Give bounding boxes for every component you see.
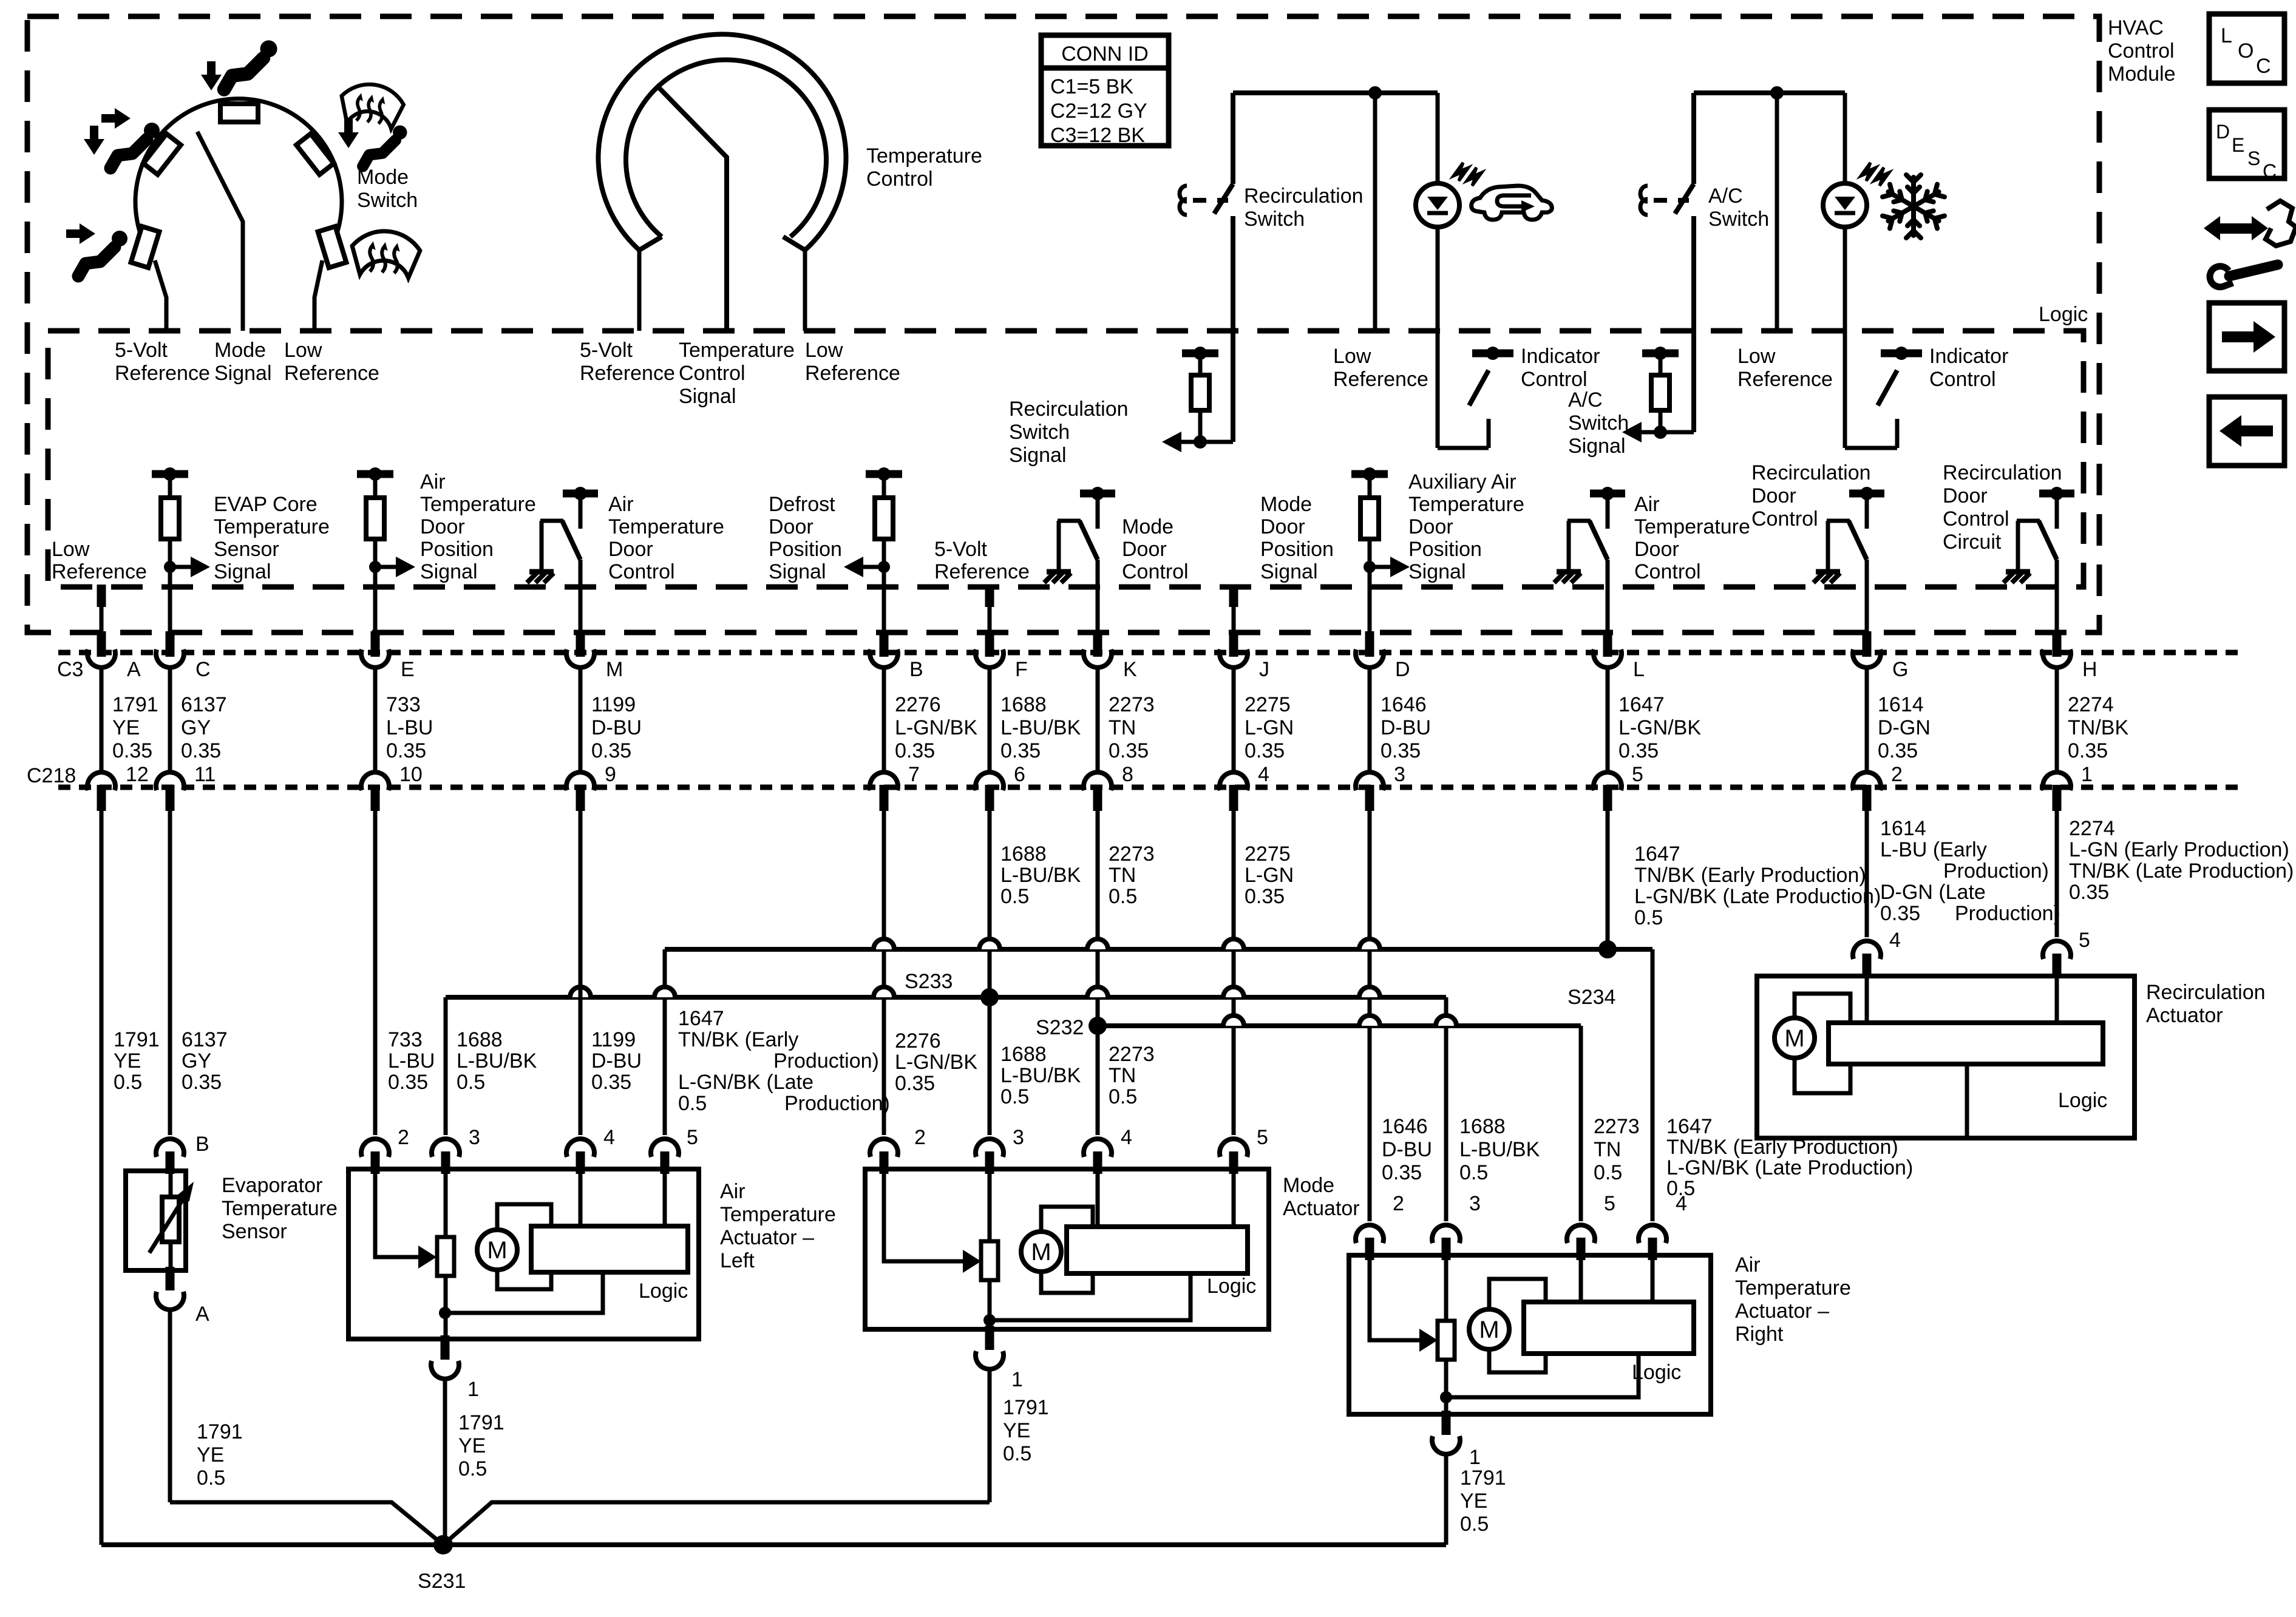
svg-text:0.35: 0.35 xyxy=(1000,739,1041,762)
svg-text:0.5: 0.5 xyxy=(1109,885,1137,908)
svg-text:Actuator –: Actuator – xyxy=(720,1226,814,1249)
svg-text:0.5: 0.5 xyxy=(114,1071,142,1094)
wire pin M C3 to C218 xyxy=(579,665,583,775)
svg-text:Switch: Switch xyxy=(1009,421,1070,444)
mode actuator pin 2 connector xyxy=(870,1139,898,1157)
svg-text:M: M xyxy=(1479,1317,1499,1343)
svg-text:E: E xyxy=(2232,134,2244,156)
svg-text:S: S xyxy=(2247,147,2260,169)
svg-text:Door: Door xyxy=(1122,538,1167,561)
svg-text:1791: 1791 xyxy=(114,1028,160,1051)
connector C3 pin M xyxy=(576,631,585,657)
svg-text:HVAC: HVAC xyxy=(2108,16,2164,39)
right actuator pin2 internal wire xyxy=(1370,1255,1411,1340)
svg-text:TN/BK (Early Production): TN/BK (Early Production) xyxy=(1634,864,1866,887)
wire right actuator pin 1 down xyxy=(1444,1453,1449,1545)
mode actuator box xyxy=(865,1169,1269,1329)
svg-text:Right: Right xyxy=(1735,1323,1784,1346)
connector C3 pin B xyxy=(880,631,889,657)
svg-text:A: A xyxy=(195,1303,209,1326)
svg-text:1646: 1646 xyxy=(1382,1115,1428,1138)
svg-text:Mode: Mode xyxy=(1122,515,1173,538)
svg-text:Signal: Signal xyxy=(679,385,736,408)
svg-text:2273: 2273 xyxy=(1109,842,1155,866)
mode actuator pin 5 connector xyxy=(1220,1139,1248,1157)
svg-text:Logic: Logic xyxy=(1632,1361,1681,1384)
svg-text:L-GN/BK: L-GN/BK xyxy=(1618,716,1701,739)
svg-text:Control: Control xyxy=(1929,368,1996,391)
svg-text:Indicator: Indicator xyxy=(1521,345,1600,368)
svg-text:5-Volt: 5-Volt xyxy=(934,538,987,561)
svg-text:Signal: Signal xyxy=(769,560,826,583)
svg-text:YE: YE xyxy=(112,716,140,739)
svg-text:2: 2 xyxy=(914,1126,926,1149)
mode actuator motor xyxy=(1021,1232,1061,1272)
bus S233 right leg to right actuator pin 3 xyxy=(1444,997,1449,1221)
svg-text:Door: Door xyxy=(608,538,653,561)
svg-text:L-GN/BK: L-GN/BK xyxy=(895,1051,977,1074)
icon windshield defrost (right) xyxy=(350,229,421,279)
left actuator logic feedback xyxy=(445,1272,603,1313)
svg-text:Mode: Mode xyxy=(1283,1174,1334,1197)
driver recirculation door control (pin G) xyxy=(1849,490,1884,498)
svg-text:H: H xyxy=(2082,658,2097,681)
connector C218 dotted row xyxy=(58,785,2246,790)
mode actuator pin 1 connector xyxy=(985,1326,994,1350)
svg-text:1: 1 xyxy=(1011,1368,1023,1391)
svg-text:Logic: Logic xyxy=(1207,1275,1256,1298)
left actuator pin 2 connector xyxy=(361,1139,389,1157)
svg-text:TN/BK (Late Production): TN/BK (Late Production) xyxy=(2069,859,2294,883)
svg-text:0.35: 0.35 xyxy=(182,1071,222,1094)
pin J start stub xyxy=(1229,585,1238,607)
svg-text:Logic: Logic xyxy=(639,1280,688,1303)
recirc actuator motor loop xyxy=(1795,994,1850,1023)
svg-text:Circuit: Circuit xyxy=(1943,531,2002,554)
svg-text:0.35: 0.35 xyxy=(181,739,221,762)
recirculation switch top wire xyxy=(1233,90,1438,95)
svg-text:7: 7 xyxy=(908,763,920,786)
connector C218 pin 6 xyxy=(976,772,1004,790)
svg-text:Door: Door xyxy=(1751,484,1796,507)
right actuator pin 2 connector xyxy=(1356,1225,1384,1243)
svg-text:L-GN: L-GN xyxy=(1245,864,1294,887)
svg-text:5: 5 xyxy=(1257,1126,1268,1149)
mode actuator potentiometer xyxy=(988,1169,992,1241)
svg-text:EVAP Core: EVAP Core xyxy=(214,493,318,516)
svg-text:3: 3 xyxy=(1469,1192,1481,1215)
bus S234 left leg to left actuator pin 5 xyxy=(663,949,667,1135)
svg-text:0.5: 0.5 xyxy=(1000,1085,1029,1108)
svg-text:1199: 1199 xyxy=(591,1028,636,1051)
svg-text:Reference: Reference xyxy=(934,560,1030,583)
svg-text:5: 5 xyxy=(1632,763,1643,786)
splice S232 xyxy=(1089,1017,1107,1035)
svg-text:CONN ID: CONN ID xyxy=(1061,42,1149,66)
svg-text:Actuator: Actuator xyxy=(1283,1197,1360,1220)
svg-text:Auxiliary Air: Auxiliary Air xyxy=(1408,470,1517,493)
svg-text:11: 11 xyxy=(194,763,216,786)
svg-text:L-GN (Early Production): L-GN (Early Production) xyxy=(2069,838,2289,861)
left actuator pin 3 connector xyxy=(432,1139,460,1157)
svg-text:Temperature: Temperature xyxy=(1735,1276,1851,1300)
svg-text:TN: TN xyxy=(1109,864,1136,887)
wire pin B module to C3 xyxy=(882,587,886,635)
svg-text:5: 5 xyxy=(687,1126,698,1149)
a/c switch signal resistor xyxy=(1659,353,1663,375)
svg-text:Signal: Signal xyxy=(1260,560,1318,583)
svg-text:Logic: Logic xyxy=(2058,1089,2107,1112)
svg-text:0.35: 0.35 xyxy=(388,1071,428,1094)
svg-text:Position: Position xyxy=(769,538,842,561)
svg-text:8: 8 xyxy=(1122,763,1133,786)
left actuator pin 5 connector xyxy=(651,1139,679,1157)
svg-text:L-BU/BK: L-BU/BK xyxy=(1459,1138,1540,1161)
svg-text:Production): Production) xyxy=(1955,902,2060,925)
svg-text:GY: GY xyxy=(182,1049,211,1073)
right actuator logic rect xyxy=(1524,1302,1694,1354)
svg-text:0.5: 0.5 xyxy=(458,1457,487,1480)
recirc actuator logic stub xyxy=(1965,1064,1969,1138)
svg-text:Control: Control xyxy=(608,560,675,583)
pull-up resistor air temp door position (pin E) xyxy=(357,470,393,478)
left actuator pin2 internal wire xyxy=(375,1169,418,1257)
svg-text:5: 5 xyxy=(2079,929,2090,952)
recirculation switch lower contact xyxy=(1231,216,1235,442)
signal arrow pin B xyxy=(878,561,890,573)
svg-text:YE: YE xyxy=(1003,1419,1030,1442)
right actuator logic feedback xyxy=(1446,1354,1639,1397)
svg-text:Evaporator: Evaporator xyxy=(222,1174,322,1197)
svg-text:Low: Low xyxy=(1737,345,1776,368)
svg-text:YE: YE xyxy=(458,1434,486,1457)
svg-text:4: 4 xyxy=(1258,763,1269,786)
svg-text:0.35: 0.35 xyxy=(2068,739,2108,762)
LED recirculation indicator xyxy=(1416,183,1459,227)
svg-text:Switch: Switch xyxy=(1568,412,1629,435)
svg-text:3: 3 xyxy=(1394,763,1405,786)
svg-text:E: E xyxy=(401,658,415,681)
inner dashed box: Logic xyxy=(48,331,2084,587)
svg-text:D-GN (Late: D-GN (Late xyxy=(1880,881,1986,904)
svg-text:5-Volt: 5-Volt xyxy=(115,339,168,362)
wire 1688 mode pin 3 xyxy=(988,994,992,1135)
a/c switch signal arrow xyxy=(1622,422,1642,442)
pull-up resistor EVAP sensor signal (pin C) xyxy=(152,470,188,478)
wire pin M module to C3 xyxy=(579,587,583,635)
svg-text:1646: 1646 xyxy=(1381,693,1427,716)
svg-text:2273: 2273 xyxy=(1109,693,1155,716)
splice S231 xyxy=(433,1535,453,1554)
svg-text:0.35: 0.35 xyxy=(1382,1161,1422,1184)
svg-text:Mode: Mode xyxy=(1260,493,1312,516)
icon DESC box xyxy=(2209,110,2284,178)
wire pin J module to C3 xyxy=(1232,587,1236,635)
icon vent person (left) xyxy=(78,231,127,276)
svg-text:Signal: Signal xyxy=(1009,444,1067,467)
svg-text:6137: 6137 xyxy=(182,1028,228,1051)
svg-text:1791: 1791 xyxy=(197,1420,243,1443)
mode switch contact top xyxy=(220,104,258,122)
right actuator motor xyxy=(1469,1309,1509,1349)
svg-text:TN/BK (Early: TN/BK (Early xyxy=(678,1028,798,1051)
a/c switch signal junction xyxy=(1654,425,1667,439)
svg-text:Reference: Reference xyxy=(284,362,379,385)
left actuator pot arrow xyxy=(416,1255,421,1259)
mode switch contact left xyxy=(131,226,160,268)
svg-text:0.5: 0.5 xyxy=(1109,1085,1137,1108)
svg-text:0.35: 0.35 xyxy=(1245,739,1285,762)
svg-text:Air: Air xyxy=(720,1180,746,1203)
mode switch left leg (5-volt reference wire) xyxy=(155,260,166,331)
svg-text:Switch: Switch xyxy=(1708,208,1769,231)
svg-text:1688: 1688 xyxy=(1000,842,1047,866)
svg-text:YE: YE xyxy=(114,1049,141,1073)
svg-text:4: 4 xyxy=(1889,929,1901,952)
bus S233 left leg to left actuator pin 3 xyxy=(444,997,448,1135)
svg-text:1688: 1688 xyxy=(1000,693,1047,716)
svg-text:6137: 6137 xyxy=(181,693,227,716)
a/c low reference wire xyxy=(1775,93,1779,331)
pin F start stub xyxy=(985,585,994,607)
right actuator pin 4 connector xyxy=(1639,1225,1666,1243)
svg-text:Signal: Signal xyxy=(214,362,272,385)
svg-text:D-BU: D-BU xyxy=(591,716,642,739)
svg-text:0.5: 0.5 xyxy=(457,1071,485,1094)
svg-text:Control: Control xyxy=(1122,560,1189,583)
svg-text:Control: Control xyxy=(1634,560,1701,583)
mode switch right leg (low reference wire) xyxy=(314,260,322,331)
wire pin E C3 to C218 xyxy=(373,665,378,775)
svg-text:Production): Production) xyxy=(1943,859,2049,883)
recirc actuator pin 5 connector xyxy=(2043,941,2071,959)
wire pin L module to C3 xyxy=(1606,587,1610,635)
svg-text:Position: Position xyxy=(420,538,494,561)
svg-text:0.35: 0.35 xyxy=(386,739,426,762)
svg-text:0.5: 0.5 xyxy=(1459,1161,1488,1184)
svg-text:Low: Low xyxy=(1333,345,1371,368)
svg-text:L: L xyxy=(1633,658,1645,681)
left actuator pin 4 connector xyxy=(566,1139,594,1157)
svg-text:0.35: 0.35 xyxy=(591,739,631,762)
svg-text:S233: S233 xyxy=(905,970,953,993)
svg-text:0.5: 0.5 xyxy=(197,1466,225,1490)
svg-text:Control: Control xyxy=(866,168,933,191)
icon LOC box xyxy=(2209,14,2284,83)
wire pin E module to C3 xyxy=(373,587,378,635)
splice S233 xyxy=(980,988,999,1006)
svg-text:L-GN: L-GN xyxy=(1245,716,1294,739)
mode switch arc xyxy=(135,99,342,257)
svg-text:Defrost: Defrost xyxy=(769,493,835,516)
mode actuator pin5 wire to logic xyxy=(1232,1169,1236,1227)
svg-text:L-BU: L-BU xyxy=(386,716,433,739)
svg-text:4: 4 xyxy=(603,1126,615,1149)
svg-text:A/C: A/C xyxy=(1708,185,1743,208)
svg-text:Air: Air xyxy=(1735,1253,1761,1276)
svg-text:1614: 1614 xyxy=(1880,817,1926,840)
air temperature actuator left box xyxy=(348,1169,699,1339)
wire pin H C3 to C218 xyxy=(2055,665,2059,775)
wire pin F C3 to C218 xyxy=(988,665,992,775)
driver air temperature door control (pin M) xyxy=(563,490,598,498)
wire 1688 F down to S233 xyxy=(988,811,992,997)
svg-text:Door: Door xyxy=(1408,515,1453,538)
svg-text:Low: Low xyxy=(52,538,90,561)
svg-text:1688: 1688 xyxy=(1459,1115,1506,1138)
svg-text:0.5: 0.5 xyxy=(1594,1161,1622,1184)
svg-text:L-BU/BK: L-BU/BK xyxy=(1000,716,1081,739)
svg-text:1647: 1647 xyxy=(678,1007,724,1030)
temperature control outer ring xyxy=(599,34,846,250)
svg-text:Sensor: Sensor xyxy=(222,1220,287,1243)
svg-text:1199: 1199 xyxy=(591,693,636,716)
svg-text:Signal: Signal xyxy=(214,560,271,583)
svg-text:S232: S232 xyxy=(1036,1016,1084,1039)
evap sensor resistor symbol xyxy=(162,1197,179,1242)
svg-text:C: C xyxy=(2263,160,2277,182)
svg-text:Switch: Switch xyxy=(357,189,418,212)
recirc switch signal T-bar xyxy=(1182,350,1218,358)
wire pin D module to C3 xyxy=(1368,587,1372,635)
connector C218 pin 7 xyxy=(870,772,898,790)
evap sensor pin B connector xyxy=(156,1139,184,1157)
wire 733 E down to actuator xyxy=(373,811,378,1135)
svg-text:G: G xyxy=(1892,658,1908,681)
svg-text:D: D xyxy=(1395,658,1410,681)
mode actuator pin2 internal wire xyxy=(884,1169,953,1261)
mode switch wiper wire xyxy=(197,132,243,331)
svg-text:Recirculation: Recirculation xyxy=(1009,398,1129,421)
svg-text:C1=5 BK: C1=5 BK xyxy=(1050,75,1133,98)
svg-text:0.35: 0.35 xyxy=(1878,739,1918,762)
svg-text:L-BU/BK: L-BU/BK xyxy=(1000,1064,1081,1087)
connector C3 pin E xyxy=(371,631,380,657)
svg-text:A/C: A/C xyxy=(1568,388,1603,412)
svg-text:0.5: 0.5 xyxy=(1666,1177,1695,1200)
mode actuator pot arrow xyxy=(953,1259,963,1264)
svg-text:L-BU/BK: L-BU/BK xyxy=(457,1049,537,1073)
a/c switch blade xyxy=(1675,184,1694,214)
wire evap pin A down xyxy=(168,1309,172,1502)
temperature control pointer xyxy=(656,85,727,331)
svg-text:Reference: Reference xyxy=(580,362,675,385)
LED a/c indicator xyxy=(1823,183,1867,227)
wire mode pin1 to S231 horizontal xyxy=(443,1502,990,1545)
svg-text:Control: Control xyxy=(2108,39,2175,63)
svg-text:0.35: 0.35 xyxy=(895,739,935,762)
connector C218 pin 4 xyxy=(1220,772,1248,790)
temperature control left leg xyxy=(637,250,642,331)
connector C3 pin D xyxy=(1365,631,1374,657)
svg-text:Reference: Reference xyxy=(115,362,210,385)
svg-text:5: 5 xyxy=(1604,1192,1615,1215)
bus line S234 (1647) with hops xyxy=(665,947,1652,952)
recirc actuator pin5 wire to logic xyxy=(2055,976,2059,1023)
mode actuator pin 4 connector xyxy=(1084,1139,1112,1157)
svg-text:Actuator –: Actuator – xyxy=(1735,1300,1829,1323)
a/c indicator LED wire xyxy=(1843,93,1847,184)
svg-text:Reference: Reference xyxy=(1737,368,1833,391)
wire pin G C3 to C218 xyxy=(1865,665,1869,775)
icon snowflake xyxy=(1883,175,1944,238)
right actuator pin4 wire to logic xyxy=(1651,1255,1655,1302)
svg-text:Control: Control xyxy=(1521,368,1588,391)
svg-text:3: 3 xyxy=(1013,1126,1024,1149)
connector C3 pin C xyxy=(166,631,175,657)
svg-text:GY: GY xyxy=(181,716,211,739)
recirculation switch momentary bracket xyxy=(1180,186,1187,215)
mode actuator logic rect xyxy=(1067,1227,1248,1273)
svg-text:B: B xyxy=(909,658,923,681)
svg-text:Temperature: Temperature xyxy=(1408,493,1524,516)
left actuator motor loop xyxy=(497,1204,551,1230)
svg-text:0.35: 0.35 xyxy=(895,1072,935,1095)
recirc switch signal junction xyxy=(1194,435,1207,449)
svg-text:Low: Low xyxy=(805,339,843,362)
connector C218 pin 12 xyxy=(87,772,115,790)
svg-text:0.5: 0.5 xyxy=(1634,906,1663,929)
svg-text:Door: Door xyxy=(420,515,465,538)
svg-text:D-BU: D-BU xyxy=(1382,1138,1432,1161)
svg-text:S231: S231 xyxy=(418,1570,466,1593)
svg-text:0.5: 0.5 xyxy=(678,1092,707,1115)
svg-text:YE: YE xyxy=(197,1443,224,1466)
svg-text:Indicator: Indicator xyxy=(1929,345,2008,368)
svg-text:Temperature: Temperature xyxy=(222,1197,338,1220)
svg-text:9: 9 xyxy=(605,763,616,786)
icon vent person (top) xyxy=(224,40,277,89)
outer dashed box: HVAC Control Module xyxy=(27,16,2099,632)
icon wrench/arrows xyxy=(2204,201,2296,287)
svg-text:M: M xyxy=(606,658,623,681)
recirculation actuator box xyxy=(1757,976,2135,1138)
wire 1199 M down to left actuator pin 4 xyxy=(579,811,583,1135)
svg-text:Door: Door xyxy=(1943,484,1988,507)
svg-text:12: 12 xyxy=(126,763,149,786)
svg-text:2274: 2274 xyxy=(2069,817,2115,840)
a/c LED wire to logic xyxy=(1843,226,1847,448)
svg-text:C3=12 BK: C3=12 BK xyxy=(1050,124,1145,147)
wire pin B C3 to C218 xyxy=(882,665,886,775)
svg-text:3: 3 xyxy=(469,1126,480,1149)
svg-text:1647: 1647 xyxy=(1618,693,1665,716)
svg-text:0.35: 0.35 xyxy=(1381,739,1421,762)
svg-text:C218: C218 xyxy=(27,764,76,787)
evap sensor pin A connector xyxy=(166,1267,175,1290)
svg-text:Temperature: Temperature xyxy=(420,493,536,516)
recirc actuator motor xyxy=(1775,1018,1815,1058)
recirc actuator logic rect xyxy=(1829,1023,2103,1064)
recirculation switch blade xyxy=(1214,184,1233,214)
svg-text:L-GN/BK (Late Production): L-GN/BK (Late Production) xyxy=(1666,1156,1913,1179)
svg-text:Air: Air xyxy=(608,493,634,516)
left actuator logic rect xyxy=(531,1226,688,1272)
svg-text:Reference: Reference xyxy=(52,560,147,583)
svg-text:C: C xyxy=(195,658,211,681)
connector C218 pin 8 xyxy=(1084,772,1112,790)
svg-text:F: F xyxy=(1015,658,1028,681)
wire mode actuator pin 1 down xyxy=(988,1368,992,1502)
svg-text:S234: S234 xyxy=(1567,986,1615,1009)
svg-text:Air: Air xyxy=(1634,493,1660,516)
svg-text:Control: Control xyxy=(1751,507,1818,531)
splice S234 xyxy=(1598,940,1617,958)
svg-text:1647: 1647 xyxy=(1666,1115,1713,1138)
a/c switch signal T-bar xyxy=(1642,350,1679,358)
svg-text:TN: TN xyxy=(1594,1138,1621,1161)
svg-text:Left: Left xyxy=(720,1249,755,1272)
